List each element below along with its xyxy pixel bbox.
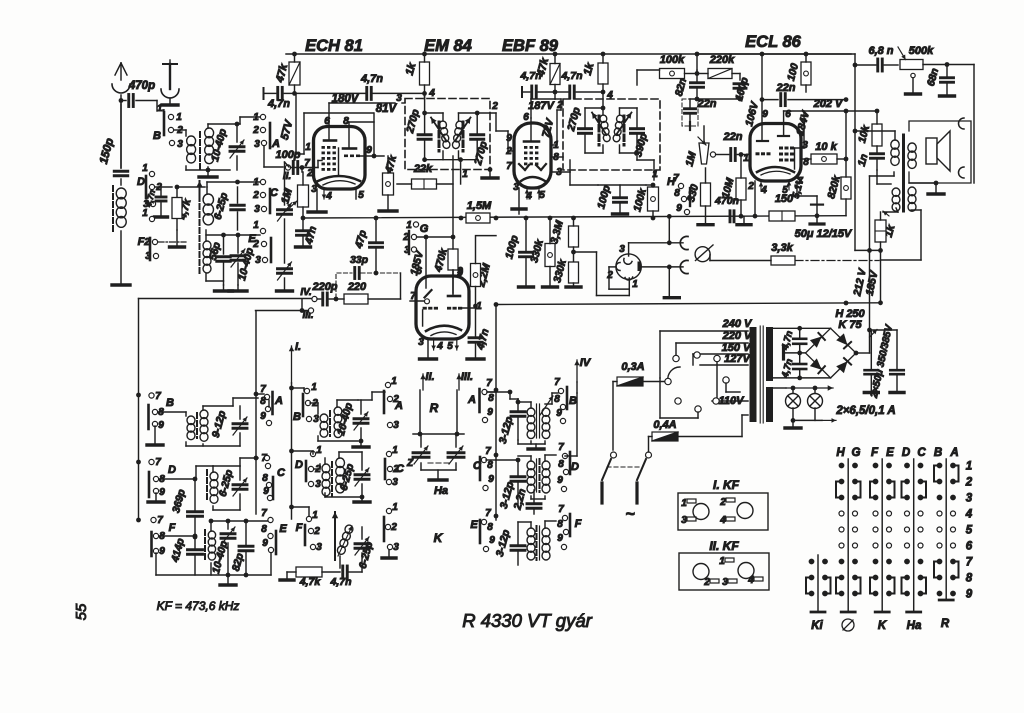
ground b2e <box>388 550 390 556</box>
ground 4,7k <box>176 230 178 245</box>
svg-text:8: 8 <box>966 573 973 585</box>
capacitor 56p <box>217 255 231 258</box>
svg-text:1: 1 <box>462 169 468 180</box>
svg-text:220: 220 <box>347 281 367 293</box>
HT secondary to rectifier <box>773 327 831 329</box>
svg-text:4,7n: 4,7n <box>519 70 541 82</box>
ECH81 grid dots <box>322 146 325 149</box>
switch B contacts 1-2-3 <box>168 114 173 119</box>
wire F row <box>159 535 195 537</box>
trimmer b2 t2 <box>355 473 369 476</box>
svg-text:C: C <box>396 463 405 475</box>
svg-text:220k: 220k <box>709 54 735 66</box>
wire 180V line <box>295 92 368 94</box>
svg-text:7: 7 <box>410 291 416 302</box>
wire pin2 down <box>754 181 756 216</box>
wire pin9 row <box>357 155 384 157</box>
svg-text:202 V: 202 V <box>813 98 844 110</box>
svg-text:II. KF: II. KF <box>709 539 739 553</box>
earth terminal <box>163 63 177 65</box>
tank wires <box>602 92 604 108</box>
switch C contacts 1-2-3 <box>260 179 265 184</box>
tube EM84 envelope <box>416 276 469 339</box>
EBF89 diode plates <box>519 164 525 170</box>
svg-text:6: 6 <box>523 112 529 123</box>
svg-text:K: K <box>434 531 444 545</box>
svg-text:3: 3 <box>966 493 973 505</box>
wire pin6 top <box>530 99 532 118</box>
tuning gang dashed shaft <box>199 188 201 276</box>
wire B+ drop <box>869 176 871 330</box>
svg-text:9: 9 <box>557 533 563 544</box>
wire pin3 ground <box>316 189 318 211</box>
svg-text:H: H <box>836 447 845 459</box>
svg-text:R: R <box>430 401 439 415</box>
svg-text:4,7n: 4,7n <box>560 70 582 82</box>
dashed gang link <box>428 462 449 464</box>
speaker <box>926 138 937 164</box>
svg-text:1: 1 <box>652 169 658 180</box>
wire pin 8 right to box <box>551 156 563 158</box>
AM input transformer <box>187 136 196 146</box>
svg-text:6: 6 <box>324 116 330 127</box>
svg-text:A: A <box>394 400 403 412</box>
ECH81 pin5 lead <box>355 188 357 199</box>
svg-text:Ki: Ki <box>811 620 823 632</box>
svg-text:9: 9 <box>489 535 495 546</box>
svg-text:4: 4 <box>747 575 754 586</box>
svg-text:9: 9 <box>506 133 512 144</box>
switch D7 contact bank1 <box>149 459 154 464</box>
svg-text:1: 1 <box>253 220 259 231</box>
switch matrix shaft DC <box>913 459 915 611</box>
padder trimmer chain <box>284 162 286 205</box>
rectifier bridge <box>806 328 857 378</box>
wire band III row <box>256 310 309 312</box>
svg-text:E: E <box>886 447 894 459</box>
svg-text:A: A <box>467 394 476 406</box>
trimmer 9-12p <box>233 422 247 425</box>
tank coil 2 <box>620 107 638 109</box>
svg-text:3: 3 <box>393 420 399 431</box>
svg-text:1: 1 <box>305 142 311 153</box>
svg-text:3: 3 <box>418 337 424 348</box>
svg-text:9: 9 <box>457 266 463 277</box>
wire I feed <box>291 346 293 383</box>
wire bank4 bus <box>576 393 578 456</box>
svg-text:0,3A: 0,3A <box>621 361 644 373</box>
main AVC bus <box>303 216 846 218</box>
trimmer b2 t3 <box>355 542 369 545</box>
wire grid1 <box>302 167 318 169</box>
svg-text:9: 9 <box>158 420 164 431</box>
svg-text:7: 7 <box>506 161 512 172</box>
switch F 8-9 <box>150 532 153 556</box>
svg-text:3: 3 <box>722 577 728 588</box>
svg-text:8: 8 <box>260 396 266 407</box>
dial lamps <box>786 394 801 409</box>
svg-text:2×6,5/0,1 A: 2×6,5/0,1 A <box>835 405 895 417</box>
svg-text:C: C <box>270 187 279 199</box>
EM84 pin4 arrow <box>433 338 435 350</box>
svg-text:II.: II. <box>425 371 434 383</box>
wire bank3 bus <box>495 305 497 521</box>
svg-text:2: 2 <box>252 190 259 201</box>
switch matrix shaft BA <box>945 459 947 599</box>
wire socket pin3 to jack <box>628 243 630 256</box>
svg-text:B: B <box>569 395 577 407</box>
wire G2 node <box>417 236 453 238</box>
svg-text:22n: 22n <box>723 131 743 143</box>
svg-text:22n: 22n <box>697 98 717 110</box>
EM84 target dashes <box>423 307 427 310</box>
wire band bus left <box>138 299 140 396</box>
svg-text:5: 5 <box>358 190 364 201</box>
tube ECH81 envelope <box>314 127 366 190</box>
matrix contacts F-E <box>873 463 879 469</box>
IF T3 coil <box>204 530 206 560</box>
headphone jack contacts <box>680 236 688 249</box>
ECH81 pin9 dashes <box>344 155 348 158</box>
tank coil 1 <box>425 112 443 114</box>
svg-text:220 V: 220 V <box>722 330 753 342</box>
svg-text:7: 7 <box>673 173 679 184</box>
wire HT top bus <box>286 53 855 55</box>
speaker ground <box>935 183 937 192</box>
svg-text:2: 2 <box>719 497 726 508</box>
rectifier ground <box>782 347 785 359</box>
EBF89 electrode bar <box>530 118 532 140</box>
switch matrix shaft Ki <box>817 555 819 611</box>
bank2 osc coil slanted <box>336 524 354 555</box>
svg-text:3: 3 <box>177 139 183 150</box>
matrix contacts B-A <box>937 463 943 469</box>
svg-text:4: 4 <box>965 509 973 521</box>
svg-text:2: 2 <box>390 522 397 533</box>
wire sec loop <box>911 209 921 211</box>
svg-text:IV: IV <box>580 357 592 369</box>
tube ECL86 envelope <box>750 124 801 182</box>
svg-text:8: 8 <box>558 459 564 470</box>
svg-text:220p: 220p <box>311 281 337 293</box>
bank2 switch D <box>310 451 315 456</box>
switch B7 contact <box>149 393 154 398</box>
svg-text:1: 1 <box>632 279 638 290</box>
svg-text:ECL 86: ECL 86 <box>745 33 801 51</box>
ECL86 pin6 electrode <box>783 111 785 135</box>
dashed coupling wires <box>336 273 352 298</box>
wire D2 row <box>155 186 172 188</box>
svg-text:7: 7 <box>966 557 973 569</box>
bank2 E trio <box>386 508 391 513</box>
svg-text:D: D <box>295 459 303 471</box>
svg-text:4: 4 <box>428 88 435 99</box>
svg-text:D: D <box>168 464 176 476</box>
selector contacts <box>673 355 679 361</box>
socket DIN <box>616 254 641 279</box>
ECH81 pin4 arrow <box>323 188 325 199</box>
svg-text:~: ~ <box>625 506 635 523</box>
IF T1 wires <box>158 411 186 413</box>
wire socket pin2 loop <box>609 266 616 268</box>
ground b2t1 <box>360 441 362 445</box>
svg-text:9: 9 <box>487 407 493 418</box>
svg-text:4: 4 <box>436 341 443 352</box>
svg-text:127V: 127V <box>724 353 751 365</box>
svg-text:R 4330 VT gyár: R 4330 VT gyár <box>462 610 592 631</box>
switch B 8-9 <box>147 405 150 429</box>
ECL86 pentode grid dots <box>779 147 783 150</box>
wire pin2 left <box>508 150 514 152</box>
svg-text:470p: 470p <box>128 80 155 92</box>
svg-text:8: 8 <box>557 519 563 530</box>
svg-text:Z: Z <box>406 458 414 469</box>
svg-text:1: 1 <box>966 461 972 473</box>
tank1 bottom wire <box>425 159 461 161</box>
ECL86 pin4 arrow <box>760 182 762 191</box>
capacitor 6-25p <box>231 204 245 207</box>
trimmer 10-40p osc <box>231 254 245 257</box>
svg-text:1: 1 <box>476 301 482 312</box>
svg-text:7: 7 <box>155 457 161 468</box>
svg-text:7: 7 <box>261 508 267 519</box>
svg-text:G: G <box>420 223 429 235</box>
trimmer 6-25p <box>233 483 247 486</box>
trimmer 10-40p b1 <box>221 532 235 535</box>
wire osc top row <box>206 234 260 236</box>
svg-text:9: 9 <box>262 538 268 549</box>
svg-text:1: 1 <box>312 510 318 521</box>
switch D 8-9 <box>148 472 151 497</box>
svg-text:E: E <box>279 523 287 535</box>
svg-text:G: G <box>852 447 861 459</box>
svg-text:B: B <box>934 447 942 459</box>
svg-text:6: 6 <box>416 266 422 277</box>
svg-text:81V: 81V <box>376 103 398 115</box>
oscillator coil 6-25p <box>203 194 213 205</box>
oscillator coil 56p <box>203 241 211 250</box>
mains switch <box>611 452 617 458</box>
svg-text:3: 3 <box>802 140 808 151</box>
svg-text:K: K <box>878 620 887 632</box>
svg-text:D: D <box>137 176 145 188</box>
svg-text:9: 9 <box>966 589 973 601</box>
bank2 switch F <box>306 516 311 521</box>
svg-text:470n: 470n <box>714 195 739 207</box>
svg-text:1: 1 <box>392 502 398 513</box>
wire agc node <box>690 98 740 100</box>
ground <box>112 283 130 286</box>
wire 212V node <box>855 249 881 251</box>
wire T1 to A <box>232 398 234 406</box>
wire pin3 screen <box>794 147 804 149</box>
speaker clamp arcs <box>959 118 964 129</box>
svg-text:187V: 187V <box>528 100 555 112</box>
svg-text:1: 1 <box>176 112 182 123</box>
bank3 T3 coils <box>527 528 535 537</box>
svg-text:1: 1 <box>681 498 687 509</box>
svg-text:7: 7 <box>558 504 564 515</box>
ground <box>207 170 209 175</box>
wire 22n anode node <box>761 54 763 100</box>
Ha ground <box>420 463 422 470</box>
arrow II. <box>422 374 424 390</box>
IF transformer III dashed box <box>563 99 660 170</box>
svg-text:A: A <box>949 447 958 459</box>
svg-text:1: 1 <box>316 445 322 456</box>
EBF89 pin4 arrow <box>526 189 528 199</box>
matrix contacts Ki <box>809 559 815 565</box>
ground b2t2 <box>361 497 363 500</box>
transformer core <box>750 327 757 422</box>
svg-text:1: 1 <box>311 382 317 393</box>
svg-text:5: 5 <box>966 525 973 537</box>
svg-text:4,7k: 4,7k <box>299 576 322 588</box>
bank2 C trio <box>386 451 391 456</box>
svg-text:7: 7 <box>486 378 492 389</box>
ECH81 electrode bars <box>324 139 336 142</box>
svg-text:6,8 n: 6,8 n <box>868 45 893 57</box>
phone plug <box>695 247 710 262</box>
switch matrix bottom bars <box>811 611 825 614</box>
EBF89 pin5 arrow <box>538 189 540 199</box>
svg-text:2: 2 <box>556 100 563 111</box>
tank coil 1 <box>585 107 603 109</box>
svg-text:1: 1 <box>392 445 398 456</box>
svg-text:500k: 500k <box>909 45 934 57</box>
svg-text:7: 7 <box>554 377 560 388</box>
switch E contacts 1-2-3 <box>260 228 265 233</box>
svg-text:7: 7 <box>157 515 163 526</box>
wire pin1 right <box>551 144 557 146</box>
svg-text:1: 1 <box>719 556 725 567</box>
svg-text:9: 9 <box>159 546 165 557</box>
svg-text:Ha: Ha <box>907 620 922 632</box>
EBF89 grid dots <box>524 146 527 149</box>
svg-text:9: 9 <box>366 145 372 156</box>
wire feedback loop <box>947 64 974 66</box>
antenna <box>120 95 122 168</box>
svg-text:8: 8 <box>487 522 493 533</box>
switch F7 contact bank1 <box>151 517 156 522</box>
electrolytic 2x50u caps <box>870 329 898 331</box>
wire band IV row <box>139 298 312 300</box>
switch E trio bank1 <box>268 517 273 522</box>
primary selector lines <box>660 330 748 332</box>
ground <box>205 274 207 281</box>
svg-text:Ha: Ha <box>434 485 448 497</box>
ground bottom <box>227 575 229 583</box>
svg-text:EM 84: EM 84 <box>424 37 472 55</box>
svg-text:IV.: IV. <box>300 287 311 298</box>
EM84 pin3 ground <box>427 339 429 357</box>
svg-text:I.: I. <box>295 341 301 353</box>
switch A contacts 1-2-3 <box>260 114 265 119</box>
svg-text:10 k: 10 k <box>815 141 837 153</box>
tuning cap 2 <box>448 451 464 454</box>
svg-text:7: 7 <box>558 442 564 453</box>
EBF89 cathode arc <box>521 177 545 181</box>
svg-text:3: 3 <box>681 515 687 526</box>
svg-text:1,5M: 1,5M <box>467 200 492 212</box>
svg-text:2: 2 <box>965 477 973 489</box>
svg-text:8: 8 <box>674 188 680 199</box>
svg-text:EBF 89: EBF 89 <box>502 37 559 55</box>
antenna coil L1 <box>112 186 114 232</box>
svg-text:1: 1 <box>406 220 412 231</box>
svg-text:8: 8 <box>488 393 494 404</box>
svg-text:3: 3 <box>392 477 398 488</box>
bank2 T1 coils <box>320 414 328 422</box>
switch 1 contact <box>149 216 154 221</box>
wire pin7 cathode <box>796 181 798 196</box>
svg-text:2: 2 <box>313 526 320 537</box>
svg-text:4,7n: 4,7n <box>360 73 383 85</box>
svg-text:6: 6 <box>966 541 973 553</box>
svg-text:9: 9 <box>556 408 562 419</box>
svg-text:2: 2 <box>491 101 498 112</box>
svg-text:F: F <box>575 518 582 530</box>
svg-text:B: B <box>166 397 174 409</box>
bank2 T2 coils <box>322 464 330 473</box>
svg-text:100k: 100k <box>660 54 685 66</box>
bottom row wire <box>156 574 271 576</box>
ECL86 cathode arc <box>757 167 794 172</box>
svg-text:3: 3 <box>315 479 321 490</box>
svg-text:F: F <box>169 522 176 534</box>
wire T2 top to C <box>239 458 241 466</box>
svg-text:0,4A: 0,4A <box>653 419 676 431</box>
wire top row F <box>211 520 270 522</box>
svg-text:E: E <box>248 233 256 245</box>
switch matrix shaft FE <box>881 459 883 611</box>
svg-text:1: 1 <box>142 163 148 174</box>
wire T1 to A <box>239 117 241 124</box>
box II.KF <box>679 553 769 590</box>
svg-text:2: 2 <box>252 125 259 136</box>
bank2 osc arrow <box>334 512 336 560</box>
wire bank right bus <box>255 311 257 394</box>
svg-text:3,3k: 3,3k <box>771 242 793 254</box>
svg-text:F: F <box>296 522 303 534</box>
wire screen 81V <box>303 113 305 154</box>
switch matrix shaft HG <box>847 459 849 611</box>
tube EBF89 envelope <box>514 123 551 188</box>
svg-text:R: R <box>941 618 950 630</box>
svg-text:9: 9 <box>159 487 165 498</box>
svg-text:2: 2 <box>306 168 313 179</box>
bank3 T1 coils <box>527 408 535 416</box>
wire pin3 right bottom <box>551 171 570 173</box>
svg-text:I. KF: I. KF <box>713 478 740 492</box>
svg-text:50μ 12/15V: 50μ 12/15V <box>795 228 853 240</box>
bank2 switch B <box>304 388 309 393</box>
svg-text:1: 1 <box>391 376 397 387</box>
svg-text:8: 8 <box>487 460 493 471</box>
svg-text:III.: III. <box>461 371 473 383</box>
svg-text:55: 55 <box>73 603 90 620</box>
svg-text:3: 3 <box>254 204 260 215</box>
tank coil 2 <box>459 112 478 114</box>
IF T2 coil <box>206 470 208 500</box>
EM84 cathode arcs <box>426 326 461 331</box>
svg-text:9: 9 <box>762 109 768 120</box>
bank3 T2 coils <box>527 461 535 470</box>
wire IV arrow <box>576 360 578 382</box>
svg-text:C: C <box>277 467 286 479</box>
EM84 deflection electrode <box>425 290 432 298</box>
svg-text:3: 3 <box>393 542 399 553</box>
